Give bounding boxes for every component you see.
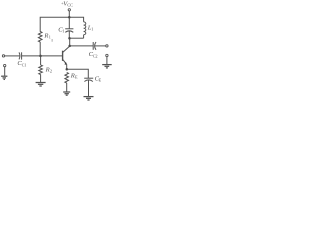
svg-text:1: 1 [49,35,51,40]
svg-text:C2: C2 [93,53,98,58]
wire input lower to ground [4,67,6,76]
inductor L1 [84,22,86,35]
capacitor CC2 straight plate [92,42,94,50]
capacitor CE straight plate [84,77,93,79]
wire base node to transistor [41,55,63,57]
input terminal circle [2,55,4,57]
label RE [70,72,78,79]
svg-text:R: R [43,32,48,39]
label CE [95,75,102,82]
wire VCC stub [68,11,70,17]
power +VCC terminal circle [68,9,70,11]
node base [39,55,42,58]
wire emitter down [66,64,68,69]
wire L1 to tank bottom [83,35,85,39]
wire RE to ground [66,83,68,92]
wire CC2 to output [95,45,106,47]
transistor Q1 base bar [62,51,64,61]
svg-text:E: E [75,75,78,80]
capacitor CC2 curved plate [95,42,96,50]
wire R2 to ground [40,75,42,83]
capacitor C1 straight plate [65,28,73,30]
svg-text:1: 1 [91,27,93,32]
transistor Q1 collector lead [63,38,70,52]
wire tank bottom rail [69,37,83,39]
label R1 [43,32,50,39]
wire CE to ground [88,80,90,96]
label C1 [58,26,64,33]
ground R2 [36,83,46,87]
svg-text:E: E [99,78,102,83]
label CC2 [89,51,98,58]
stray mark [51,39,53,42]
ground RE [63,92,70,95]
node tank bottom [68,37,71,40]
svg-text:1: 1 [62,29,64,34]
svg-text:CC: CC [67,2,73,7]
output terminal circle [106,45,108,47]
svg-text:C1: C1 [22,63,27,68]
capacitor CC1 curved plate [18,52,21,59]
wire collector to CC2 [70,45,93,47]
svg-text:R: R [70,72,75,79]
svg-text:2: 2 [50,69,52,74]
wire base node down to R2 [40,56,42,65]
wire input to Cin [4,55,19,57]
capacitor C1 curved plate [65,31,73,33]
label CC1 [17,60,26,67]
resistor R2 [39,65,43,74]
node emitter [66,68,69,71]
ground CE [84,97,94,100]
resistor R1 [38,32,42,43]
resistor RE [65,73,69,84]
capacitor CE curved plate [84,80,93,82]
wire emitter node to CE [67,69,89,78]
input lower terminal circle [4,64,6,66]
transistor Q1 emitter lead with arrow [63,59,67,64]
wire top VCC rail [40,17,83,32]
label L1 [87,25,94,32]
capacitor C1 top wire [68,17,70,29]
label +VCC [61,0,73,7]
wire Cin to base node [22,55,41,57]
output lower terminal circle [106,54,108,56]
node collector [68,45,71,48]
label R2 [45,66,52,73]
wire C1 to tank bottom [68,31,70,38]
wire R1 to base node [39,42,41,56]
wire output lower to ground [106,57,108,65]
ground output [102,65,112,68]
node VCC rail junction [68,16,71,19]
capacitor CC1 straight plate [21,52,23,59]
ground input [1,76,7,79]
svg-text:R: R [45,66,50,73]
